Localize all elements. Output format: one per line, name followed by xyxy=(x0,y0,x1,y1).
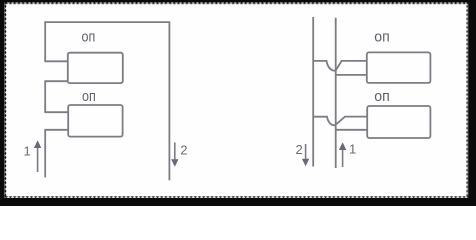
wire: radiator 1 bottom stub (right scheme) xyxy=(336,74,367,76)
wire: riser segment between radiators (left scheme) xyxy=(44,81,46,112)
svg-text:оп: оп xyxy=(82,89,96,105)
wire: radiator 1 top connection with crossover hop (right scheme) xyxy=(313,61,367,71)
svg-text:оп: оп xyxy=(82,30,96,46)
wire: return drop pipe (left scheme) xyxy=(168,21,170,180)
wire: riser lower segment (left scheme) xyxy=(44,130,46,178)
wire: stub radiator 1 outlet to riser (left scheme) xyxy=(44,80,67,82)
wire: radiator 2 top connection with crossover hop (right scheme) xyxy=(313,117,367,126)
wire: radiator 2 bottom stub (right scheme) xyxy=(336,129,368,131)
arrow 2: return flow down (left scheme) xyxy=(171,143,178,167)
arrow 2: return flow down (right scheme) xyxy=(302,144,309,166)
arrow 1: supply flow up (right scheme) xyxy=(339,142,346,167)
radiator ОП1 (right scheme) xyxy=(367,52,431,83)
arrow 1: supply flow up (left scheme) xyxy=(34,140,41,172)
wire: horizontal supply main (left scheme) xyxy=(44,21,169,23)
radiator ОП2 (right scheme) xyxy=(367,106,430,138)
radiator ОП2 (left scheme) xyxy=(68,105,122,137)
svg-text:оп: оп xyxy=(374,89,390,105)
wire: riser segment above radiator 1 (left scheme) xyxy=(44,21,46,61)
scan border frame (decorative) xyxy=(0,0,476,3)
svg-text:оп: оп xyxy=(374,29,390,45)
wire: stub riser to radiator 2 inlet (left scheme) xyxy=(44,111,68,113)
svg-text:1: 1 xyxy=(349,142,356,157)
wire: riser A return pipe (right scheme) xyxy=(312,17,314,167)
svg-text:2: 2 xyxy=(180,143,187,158)
wire: riser B supply pipe (right scheme) xyxy=(335,18,337,168)
svg-text:1: 1 xyxy=(24,144,31,159)
svg-text:2: 2 xyxy=(296,142,303,157)
wire: stub radiator 2 outlet to riser (left scheme) xyxy=(44,129,68,131)
radiator ОП1 (left scheme) xyxy=(68,53,123,83)
wire: stub riser to radiator 1 inlet (left scheme) xyxy=(44,60,67,62)
